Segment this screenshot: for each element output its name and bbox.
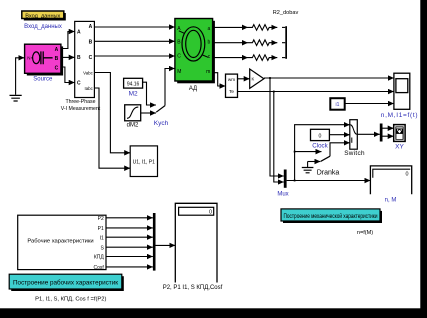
switch block xyxy=(350,120,358,150)
svg-text:P2, P1 I1, S КПД,Cosf: P2, P1 I1, S КПД,Cosf xyxy=(163,285,223,291)
constant M2 (94.16) xyxy=(124,78,143,88)
svg-text:P1: P1 xyxy=(98,226,104,232)
wire Te to scope (with branch to mux) xyxy=(238,91,394,93)
wire P2 to mux1 xyxy=(106,217,153,219)
wire Iabc to U1I1P1 xyxy=(94,88,130,168)
svg-text:C: C xyxy=(77,81,81,87)
svg-text:wm: wm xyxy=(228,77,235,82)
svg-text:94.16: 94.16 xyxy=(127,81,140,87)
window frame right xyxy=(420,0,427,318)
svg-text:C: C xyxy=(177,53,181,59)
demux wm/Te xyxy=(226,74,238,97)
svg-text:a: a xyxy=(208,26,211,32)
wire Cosf to mux1 xyxy=(106,266,153,268)
svg-text:A: A xyxy=(55,47,59,53)
svg-text:Kych: Kych xyxy=(154,120,169,127)
wire Source A to measurement A xyxy=(61,32,75,49)
svg-text:A: A xyxy=(77,30,81,36)
svg-text:Вход_данных: Вход_данных xyxy=(25,13,60,19)
window frame bottom xyxy=(0,308,427,318)
resistor Ra xyxy=(213,25,286,31)
svg-text:A: A xyxy=(89,24,93,30)
svg-text:Switch: Switch xyxy=(344,150,365,157)
svg-text:dM2: dM2 xyxy=(127,123,139,129)
svg-text:n=f(M): n=f(M) xyxy=(357,230,373,236)
wire motor m to demux xyxy=(213,73,226,86)
mux (n,M) xyxy=(284,170,287,188)
XY graph block xyxy=(394,125,405,142)
wire dM2 to switch Kych xyxy=(141,112,156,114)
svg-text:m: m xyxy=(206,69,210,75)
svg-text:Iabc: Iabc xyxy=(84,86,93,91)
svg-text:Вход_данных: Вход_данных xyxy=(24,24,62,30)
gain K xyxy=(250,69,264,88)
wire Source C to measurement C xyxy=(61,67,75,83)
wire net nM up to switch input 1 xyxy=(295,125,350,181)
display n,M xyxy=(370,166,411,194)
svg-text:0: 0 xyxy=(319,133,322,139)
wire i1 to scope input 3 xyxy=(345,103,394,105)
svg-text:M: M xyxy=(177,69,181,75)
scope n,M,I1 xyxy=(394,73,410,109)
svg-text:n, M: n, M xyxy=(385,198,397,204)
manual switch Dranka lever xyxy=(321,143,350,162)
display P2,P1,I1,S,КПД,Cosf xyxy=(175,203,217,282)
resistor Rc xyxy=(213,55,286,61)
junction Te xyxy=(273,91,275,93)
demux2 xyxy=(380,124,383,142)
svg-text:B: B xyxy=(89,40,93,46)
svg-text:Построение рабочих характерист: Построение рабочих характеристик xyxy=(13,280,118,287)
source block (3-phase source, magenta) xyxy=(25,44,64,75)
wire ground to manual switch input 2 xyxy=(308,161,321,163)
wire wm to gain xyxy=(238,78,250,80)
svg-text:Source: Source xyxy=(33,76,53,82)
svg-text:Cosf: Cosf xyxy=(94,265,105,271)
svg-text:Dranka: Dranka xyxy=(317,170,340,177)
wire measurement B to motor B xyxy=(94,40,174,42)
annotation box Построение рабочих характеристик (cyan) xyxy=(9,274,124,291)
subsystem Рабочие характеристики xyxy=(18,215,106,271)
wire mux1 to display P2 xyxy=(156,244,176,246)
svg-text:0: 0 xyxy=(406,172,409,178)
wire КПД to mux1 xyxy=(106,256,153,258)
wire measurement C to motor C xyxy=(94,55,174,57)
wire demux2 to XY input 2 xyxy=(383,135,394,137)
svg-text:АД: АД xyxy=(189,86,197,92)
subsystem U1,I1,P1 xyxy=(130,146,157,177)
annotation box Вход_данных (yellow) xyxy=(22,11,66,21)
clock xyxy=(311,129,330,140)
svg-text:M2: M2 xyxy=(129,90,138,97)
wire clock to switch input 2 xyxy=(329,134,349,136)
svg-text:B: B xyxy=(77,55,81,61)
induction motor AD (green) xyxy=(175,19,215,84)
svg-text:i1: i1 xyxy=(336,102,340,108)
junction n xyxy=(269,77,271,79)
ramp block dM2 xyxy=(125,105,141,121)
svg-text:Vabc: Vabc xyxy=(83,71,93,76)
three-phase V-I measurement block xyxy=(75,21,95,97)
resistor Rb xyxy=(213,40,286,46)
wire M2 to switch Kych xyxy=(143,82,156,105)
ground G2 xyxy=(302,162,314,173)
wire Source B to measurement B xyxy=(61,56,75,58)
svg-text:R2_dobav: R2_dobav xyxy=(273,10,299,16)
wire S to mux1 xyxy=(106,246,153,248)
from tag i1 xyxy=(330,98,344,110)
svg-text:Three-Phase: Three-Phase xyxy=(66,99,96,105)
wire Te branch down to mux xyxy=(274,92,284,183)
svg-text:0: 0 xyxy=(209,210,212,216)
junction manual switch feed xyxy=(294,151,296,153)
svg-text:Построение механической характ: Построение механической характеристики xyxy=(284,213,378,220)
svg-text:Рабочие характеристики: Рабочие характеристики xyxy=(27,239,93,245)
svg-text:P1, I1, S, КПД, Cos f =f(P2): P1, I1, S, КПД, Cos f =f(P2) xyxy=(35,296,106,302)
junction net nM xyxy=(294,180,296,182)
wire gain to scope (with branch to mux) xyxy=(264,77,394,79)
svg-text:Te: Te xyxy=(229,89,234,94)
svg-text:N: N xyxy=(27,56,30,61)
wire Vabc to U1I1P1 xyxy=(94,73,130,153)
svg-text:C: C xyxy=(55,66,59,72)
svg-text:C: C xyxy=(89,55,93,61)
wire measurement A to motor A xyxy=(94,26,174,28)
svg-text:V-I Measurement: V-I Measurement xyxy=(61,106,101,112)
svg-text:K: K xyxy=(252,77,255,82)
svg-text:I1: I1 xyxy=(100,235,104,241)
mux1 xyxy=(153,213,156,271)
ground G1 xyxy=(10,58,25,101)
annotation box Построение механической характеристики (cyan) xyxy=(281,209,382,223)
svg-text:B: B xyxy=(55,56,59,62)
svg-text:b: b xyxy=(208,39,211,45)
svg-text:XY: XY xyxy=(395,144,404,151)
wire n branch down to mux xyxy=(270,78,284,176)
svg-text:U1, I1, P1: U1, I1, P1 xyxy=(133,159,155,165)
wire net nM to manual switch input 1 xyxy=(295,151,322,153)
svg-text:КПД: КПД xyxy=(94,255,105,261)
svg-text:n,M,I1=f(t): n,M,I1=f(t) xyxy=(381,112,419,119)
wire switch to demux2 xyxy=(357,133,380,135)
neutral bus bar xyxy=(285,26,287,59)
wire I1 to mux1 xyxy=(106,236,153,238)
svg-text:Clock: Clock xyxy=(312,143,328,150)
svg-text:P2: P2 xyxy=(98,216,104,222)
wire demux2 to XY input 1 xyxy=(383,127,394,129)
svg-text:Mux: Mux xyxy=(277,191,288,197)
wire P1 to mux1 xyxy=(106,227,153,229)
manual switch Kych xyxy=(156,69,175,113)
wire mux output to display n,M xyxy=(287,180,371,182)
